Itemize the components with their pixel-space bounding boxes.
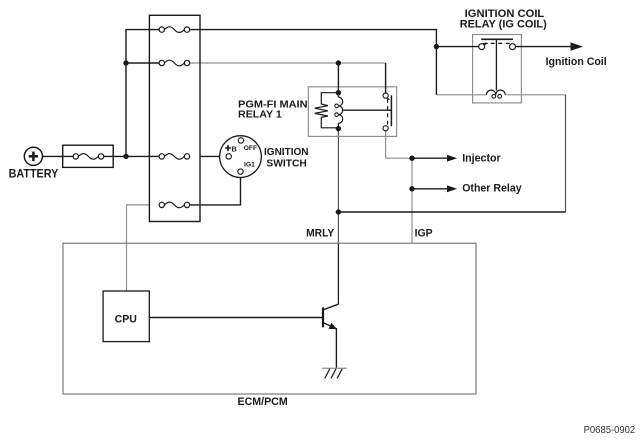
svg-text:OFF: OFF [244, 145, 258, 152]
svg-text:Ignition Coil: Ignition Coil [546, 56, 607, 68]
svg-text:RELAY (IG COIL): RELAY (IG COIL) [460, 19, 547, 31]
svg-text:RELAY 1: RELAY 1 [238, 108, 282, 120]
svg-text:BATTERY: BATTERY [9, 168, 59, 180]
svg-text:Other Relay: Other Relay [462, 183, 522, 195]
svg-text:IGNITION: IGNITION [264, 146, 309, 158]
svg-text:IG1: IG1 [244, 162, 255, 169]
svg-text:P0685-0902: P0685-0902 [584, 425, 636, 436]
svg-text:IGP: IGP [415, 228, 433, 240]
svg-text:SWITCH: SWITCH [266, 157, 306, 169]
svg-text:MRLY: MRLY [306, 228, 335, 240]
svg-text:B: B [231, 144, 237, 153]
svg-text:CPU: CPU [115, 313, 137, 325]
svg-text:ECM/PCM: ECM/PCM [238, 396, 288, 408]
svg-text:Injector: Injector [462, 152, 501, 164]
